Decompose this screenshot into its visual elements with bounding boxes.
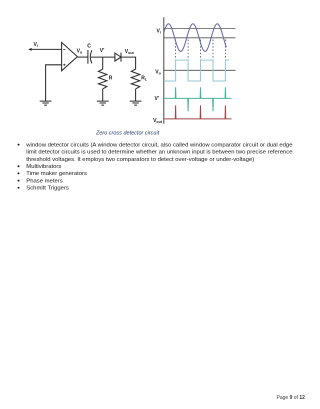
svg-text:RL: RL (141, 76, 148, 82)
wire R to ground (102, 89, 104, 101)
svg-text:Vi: Vi (34, 42, 38, 48)
wire op-amp output (77, 56, 88, 58)
wire input Vi (29, 48, 62, 50)
svg-text:Schmitt Triggers: Schmitt Triggers (26, 186, 69, 192)
svg-text:Vo: Vo (155, 69, 161, 75)
wire dashed crossing 2 (187, 40, 189, 60)
wire RL to ground (135, 89, 137, 101)
op-amp U1 (62, 42, 78, 70)
ground RL (130, 101, 142, 105)
svg-text:Multivibrators: Multivibrators (26, 164, 61, 170)
svg-text:threshold voltages. It employs: threshold voltages. It employs two compa… (26, 157, 254, 163)
svg-text:Phase meters: Phase meters (26, 178, 62, 184)
resistor RL (131, 69, 140, 89)
svg-text:V′: V′ (100, 48, 105, 54)
svg-text:Vi: Vi (156, 28, 160, 34)
node Vi zero line (164, 37, 236, 39)
node Vout spike wave (164, 105, 232, 119)
bullet 2 dot (18, 165, 20, 167)
svg-text:Page 9 of 12: Page 9 of 12 (277, 395, 306, 401)
bullet 1 dot (18, 144, 20, 146)
capacitor C (88, 50, 92, 64)
wire noninverting input (46, 65, 62, 101)
node Vo square wave (164, 60, 229, 81)
ground op-amp (40, 101, 52, 105)
svg-text:C: C (87, 43, 91, 49)
svg-text:limit detector circuits is use: limit detector circuits is used to deter… (26, 150, 293, 156)
wire dashed crossing 5 (224, 40, 226, 60)
waveform axis vertical (163, 17, 165, 124)
svg-text:window detector circuits (A wi: window detector circuits (A window detec… (25, 142, 293, 148)
node input terminal arrow (28, 48, 32, 51)
pin plus (63, 64, 65, 66)
svg-text:Time maker generators: Time maker generators (26, 171, 87, 177)
bullet 4 dot (18, 180, 20, 182)
bullet 3 dot (18, 172, 20, 174)
resistor R (98, 69, 107, 89)
ground R (97, 101, 109, 105)
wire dashed crossing 3 (200, 40, 202, 60)
node Vp spike wave (164, 87, 232, 111)
node Vi sine wave (164, 24, 226, 52)
wire C to node Vp (91, 56, 115, 58)
node Vi threshold line upper (164, 27, 236, 29)
wire dashed crossing 1 (175, 40, 177, 60)
svg-text:R: R (109, 76, 113, 82)
pin minus (63, 48, 65, 50)
wire node Vp down (102, 57, 104, 69)
svg-text:V′: V′ (154, 96, 159, 102)
wire dashed crossing 4 (212, 40, 214, 60)
svg-text:Zero cross detector circuit: Zero cross detector circuit (95, 131, 160, 137)
bullet 5 dot (18, 187, 20, 189)
node Vo axis line (164, 69, 236, 71)
svg-text:Vo: Vo (77, 49, 83, 55)
wire diode to RL corner (121, 57, 136, 69)
diode D1 (115, 53, 121, 62)
svg-text:Vout: Vout (153, 118, 163, 124)
svg-text:Vout: Vout (125, 49, 135, 55)
